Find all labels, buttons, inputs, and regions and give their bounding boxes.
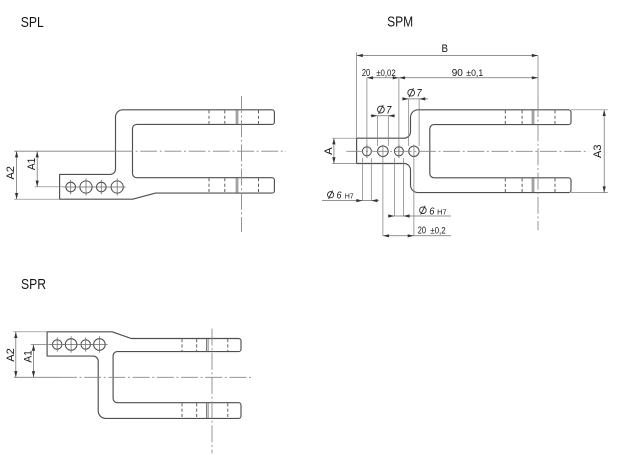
SPM dimension A3 [603,110,605,193]
SPL dimension A1 [36,151,38,187]
SPR hole 2 [65,339,77,351]
SPL dimension A2 [16,151,18,199]
svg-text:A: A [323,147,335,155]
SPR bottom prong hidden lines (dashed) [182,403,228,418]
SPM horizontal centerline [346,150,588,152]
SPM label ⌀7 lower [378,106,385,113]
SPR part outline [47,332,241,419]
SPR top prong hidden lines (dashed) [182,339,228,351]
svg-text:20: 20 [362,68,371,79]
SPM label ⌀6 H7 first [328,192,334,198]
SPM bottom prong plate edge (double line) [532,178,534,192]
SPR hole 4 [94,339,106,351]
SPL horizontal centerline [14,150,116,152]
svg-text:H7: H7 [345,192,354,201]
SPL bottom prong plate edge (double line) [236,178,238,193]
SPL extension line bottom (A2) [14,198,60,200]
SPM dimension 20 ±0,02 [367,77,399,79]
SPR extension line top (A2) [13,331,47,333]
SPM hole 2 [378,146,389,157]
svg-text:6: 6 [429,207,435,218]
svg-text:H7: H7 [437,208,446,217]
SPM top prong hidden lines (dashed) [505,110,555,124]
SPL hole 1 [66,182,76,192]
svg-text:SPL: SPL [21,15,44,31]
svg-text:20: 20 [418,225,427,236]
SPM dimension B [357,55,538,57]
svg-text:7: 7 [386,105,392,117]
SPM dimension ⌀7 (hole 2) [371,115,395,117]
SPM dimension ⌀6 H7 (hole 1) [322,200,379,202]
SPM vertical centerline (chain joint axis) [537,56,539,101]
svg-text:±0,02: ±0,02 [376,68,396,78]
svg-text:A3: A3 [592,144,604,158]
svg-text:A2: A2 [5,166,17,180]
SPM top prong plate edge (double line) [532,110,534,124]
SPR bottom prong plate edge (double line) [207,403,209,418]
SPM dimension ⌀6 H7 (hole 3) [389,215,451,217]
SPM bottom prong hidden lines (dashed) [505,178,555,192]
svg-text:B: B [442,43,449,55]
SPM hole 4 [409,146,419,156]
SPL extension line hole axis (A1) [35,186,66,188]
SPM dimension ⌀7 (hole 4) [402,98,428,100]
svg-text:7: 7 [417,88,423,100]
svg-text:90: 90 [452,68,464,79]
SPL part outline [60,110,275,199]
SPM dimension 20 ±0,2 (bottom) [383,235,451,237]
svg-text:A1: A1 [22,350,34,363]
SPM dimension 90 ±0,1 [399,77,538,79]
SPR vertical centerline [211,329,213,454]
SPM hole 1 [362,147,371,156]
SPL hole 2 [80,181,92,193]
SPR horizontal centerline [14,376,60,378]
SPM part outline [357,110,571,193]
svg-text:SPR: SPR [21,277,46,293]
svg-text:6: 6 [337,191,342,202]
SPM label ⌀7 upper [408,89,415,96]
SPR top prong plate edge (double line) [207,339,209,352]
SPM hole 3 [394,147,403,156]
SPM extension line left edge (B) [356,53,358,138]
SPL hole 3 [97,182,107,192]
SPR hole 3 [81,340,90,349]
SPR hole crosshairs [50,336,108,353]
SPR dimension A1 [33,345,35,378]
SPM extension hole3 axis up [398,78,400,158]
SPL top prong plate edge (double line) [236,110,238,124]
SPM hole crosshair verticals [367,145,399,159]
SPL bottom prong hidden lines (dashed) [209,178,259,192]
SPL vertical centerline [241,96,243,232]
svg-text:A1: A1 [26,158,38,171]
SPL hole 4 [111,181,123,193]
svg-text:±0,1: ±0,1 [466,68,483,78]
SPL top prong hidden lines (dashed) [209,110,259,123]
SPM dimension A [333,138,335,163]
SPR hole 1 [53,340,62,349]
SPM extension hole1 axis up [366,78,368,158]
SPR extension line hole axis (A1) [31,344,52,346]
svg-text:A2: A2 [5,348,17,362]
svg-text:SPM: SPM [387,14,413,30]
SPR dimension A2 [15,332,17,378]
svg-text:±0,2: ±0,2 [430,225,446,235]
SPM label ⌀6 H7 second [420,207,427,214]
SPL hole crosshairs [63,178,125,195]
